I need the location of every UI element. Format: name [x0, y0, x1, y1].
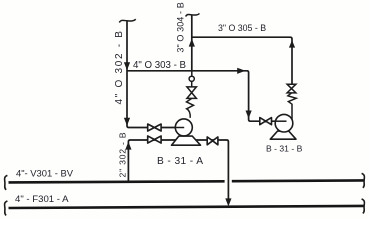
svg-text:3" O 305 - B: 3" O 305 - B — [218, 23, 266, 33]
svg-text:B - 31 - A: B - 31 - A — [157, 156, 203, 167]
svg-text:4"- V301 - BV: 4"- V301 - BV — [16, 168, 74, 179]
svg-text:3" O 304 - B: 3" O 304 - B — [176, 2, 186, 52]
svg-text:4" O 303 - B: 4" O 303 - B — [133, 60, 186, 71]
svg-text:4" O 302 - B: 4" O 302 - B — [114, 29, 125, 104]
svg-text:B - 31 - B: B - 31 - B — [266, 144, 303, 154]
svg-text:2" 302 - B: 2" 302 - B — [118, 132, 128, 178]
svg-text:4" - F301 - A: 4" - F301 - A — [15, 194, 69, 205]
